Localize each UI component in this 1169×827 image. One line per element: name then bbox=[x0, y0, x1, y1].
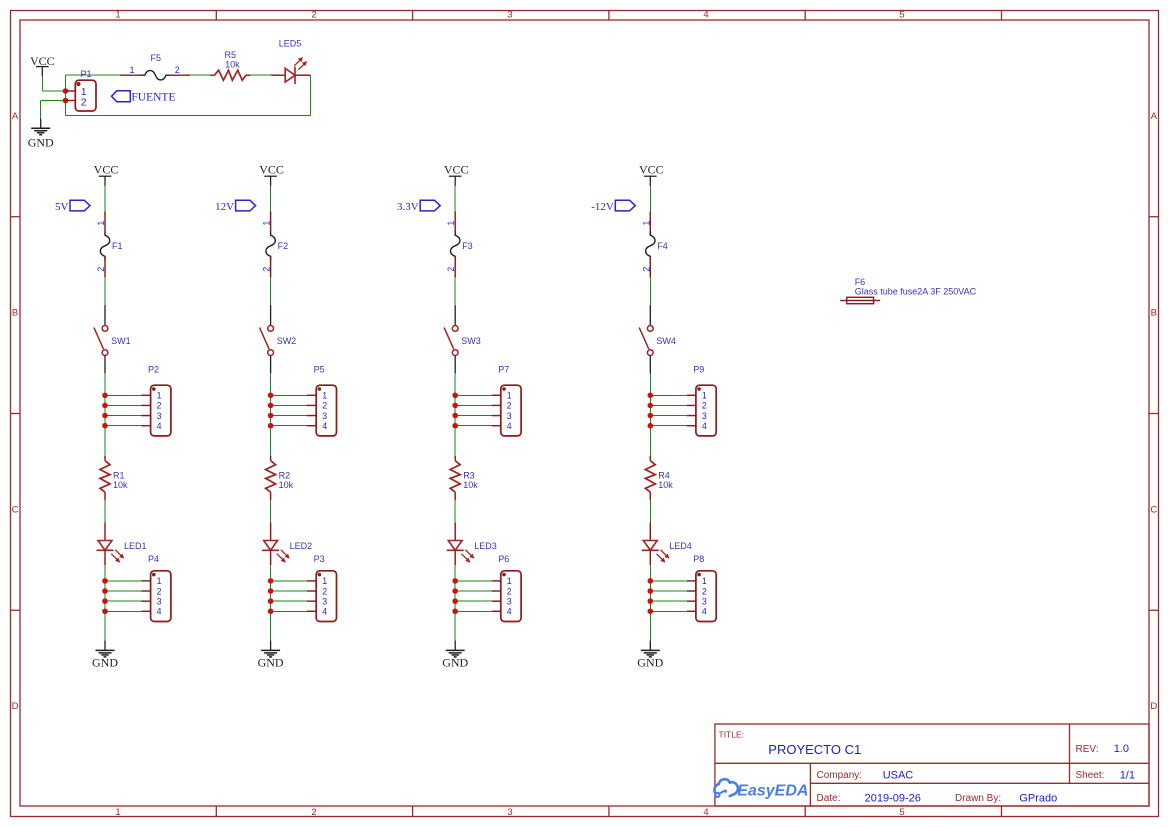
power flag VCC (column 12V) bbox=[259, 162, 284, 186]
wire VCC to fuse bbox=[649, 186, 651, 212]
junction P5 pin 1 bbox=[268, 393, 274, 399]
title block bbox=[715, 724, 1149, 806]
svg-text:5: 5 bbox=[899, 807, 904, 818]
ground GND (source circuit) bbox=[28, 119, 54, 150]
svg-text:2: 2 bbox=[311, 10, 316, 21]
connector P4 (4-pin header) bbox=[141, 554, 171, 621]
wire to P8 pin 2 bbox=[650, 590, 686, 592]
svg-text:4: 4 bbox=[507, 607, 512, 617]
svg-text:VCC: VCC bbox=[444, 162, 469, 176]
switch SW4 bbox=[639, 305, 676, 373]
P3 pin 4 bbox=[307, 610, 316, 612]
junction P8 pin 3 bbox=[648, 598, 654, 604]
wire LED to output header bbox=[270, 565, 272, 641]
svg-text:5V: 5V bbox=[55, 201, 69, 213]
LED LED4 bbox=[642, 523, 692, 566]
svg-text:D: D bbox=[1150, 701, 1157, 712]
wire switch to resistor bbox=[454, 373, 456, 456]
wire to P8 pin 1 bbox=[650, 580, 686, 582]
wire resistor to LED bbox=[270, 500, 272, 523]
wire resistor to LED bbox=[104, 500, 106, 523]
connector P6 (4-pin header) bbox=[492, 554, 521, 621]
power flag VCC (column -12V) bbox=[639, 162, 664, 186]
svg-text:B: B bbox=[1151, 308, 1157, 319]
P7 pin 3 bbox=[492, 415, 501, 417]
wire switch to resistor bbox=[104, 373, 106, 456]
svg-text:2: 2 bbox=[157, 401, 162, 411]
junction P2 pin 4 bbox=[102, 423, 108, 429]
P6 pin 1 bbox=[492, 580, 501, 582]
svg-text:GND: GND bbox=[28, 135, 54, 149]
svg-text:GPrado: GPrado bbox=[1019, 792, 1057, 804]
wire VCC to P1 pin 1 bbox=[42, 76, 65, 91]
resistor R2 10k bbox=[266, 456, 294, 500]
junction P9 pin 3 bbox=[648, 413, 654, 419]
svg-text:P8: P8 bbox=[693, 554, 704, 564]
svg-text:3: 3 bbox=[702, 411, 707, 421]
svg-text:F4: F4 bbox=[657, 241, 668, 251]
svg-text:4: 4 bbox=[702, 421, 707, 431]
svg-text:2: 2 bbox=[322, 401, 327, 411]
junction P9 pin 1 bbox=[648, 393, 654, 399]
wire to P3 pin 1 bbox=[271, 580, 307, 582]
svg-text:PROYECTO C1: PROYECTO C1 bbox=[768, 742, 861, 757]
wire to P6 pin 2 bbox=[455, 590, 491, 592]
svg-text:LED2: LED2 bbox=[290, 541, 313, 551]
svg-text:10k: 10k bbox=[658, 480, 673, 490]
wire to P2 pin 3 bbox=[105, 415, 141, 417]
junction P6 pin 1 bbox=[452, 578, 458, 584]
P6 pin 2 bbox=[492, 590, 501, 592]
wire to P3 pin 3 bbox=[271, 600, 307, 602]
junction P4 pin 3 bbox=[102, 598, 108, 604]
junction P7 pin 1 bbox=[452, 393, 458, 399]
svg-text:4: 4 bbox=[157, 421, 162, 431]
wire to P4 pin 4 bbox=[105, 610, 141, 612]
svg-text:1: 1 bbox=[702, 391, 707, 401]
svg-text:R4: R4 bbox=[658, 471, 670, 481]
svg-text:4: 4 bbox=[702, 607, 707, 617]
power flag VCC (column 5V) bbox=[94, 162, 119, 186]
connector P5 (4-pin header) bbox=[307, 365, 337, 436]
junction P3 pin 1 bbox=[268, 578, 274, 584]
svg-text:3: 3 bbox=[507, 807, 512, 818]
wire P1 pin 2 to GND bbox=[41, 101, 66, 120]
wire to P7 pin 1 bbox=[455, 394, 491, 396]
P4 pin 4 bbox=[141, 610, 150, 612]
wire to P9 pin 1 bbox=[650, 394, 686, 396]
svg-text:1: 1 bbox=[115, 10, 120, 21]
svg-text:A: A bbox=[1151, 111, 1158, 122]
resistor R4 10k bbox=[645, 456, 673, 500]
junction P1 pin 1 bbox=[63, 88, 69, 94]
svg-text:3: 3 bbox=[322, 411, 327, 421]
svg-text:4: 4 bbox=[322, 607, 327, 617]
connector P8 (4-pin header) bbox=[687, 554, 717, 621]
svg-text:4: 4 bbox=[703, 807, 708, 818]
wire fuse to switch bbox=[104, 277, 106, 306]
resistor R1 10k bbox=[100, 456, 128, 500]
svg-text:F2: F2 bbox=[278, 241, 289, 251]
wire fuse to switch bbox=[649, 277, 651, 306]
svg-text:F5: F5 bbox=[151, 53, 162, 63]
svg-text:GND: GND bbox=[258, 656, 284, 670]
junction P7 pin 4 bbox=[452, 423, 458, 429]
connector P7 (4-pin header) bbox=[492, 365, 521, 436]
junction P2 pin 3 bbox=[102, 413, 108, 419]
svg-text:10k: 10k bbox=[225, 60, 240, 70]
svg-text:R5: R5 bbox=[225, 50, 237, 60]
wire to P4 pin 3 bbox=[105, 600, 141, 602]
P9 pin 1 bbox=[687, 394, 696, 396]
svg-text:USAC: USAC bbox=[883, 769, 914, 781]
wire resistor to LED bbox=[454, 500, 456, 523]
P3 pin 2 bbox=[307, 590, 316, 592]
svg-text:3: 3 bbox=[507, 10, 512, 21]
svg-text:5: 5 bbox=[899, 10, 904, 21]
P2 pin 1 bbox=[141, 394, 150, 396]
junction P5 pin 4 bbox=[268, 423, 274, 429]
wire to P3 pin 2 bbox=[271, 590, 307, 592]
P5 pin 4 bbox=[307, 425, 316, 427]
fuse F4 bbox=[641, 211, 668, 277]
svg-text:Company:: Company: bbox=[817, 770, 863, 781]
wire to P5 pin 1 bbox=[271, 394, 307, 396]
fuse F5 bbox=[120, 53, 190, 80]
svg-text:GND: GND bbox=[442, 656, 468, 670]
P6 pin 4 bbox=[492, 610, 501, 612]
svg-text:LED3: LED3 bbox=[474, 541, 497, 551]
svg-text:D: D bbox=[12, 701, 19, 712]
junction P2 pin 1 bbox=[102, 393, 108, 399]
svg-text:GND: GND bbox=[637, 656, 663, 670]
ground GND (column 12V) bbox=[258, 641, 284, 670]
net flag FUENTE bbox=[112, 91, 176, 104]
fuse F1 bbox=[96, 211, 123, 277]
P3 pin 3 bbox=[307, 600, 316, 602]
wire LED to output header bbox=[104, 565, 106, 641]
wire LED to output header bbox=[454, 565, 456, 641]
svg-text:1: 1 bbox=[157, 576, 162, 586]
junction P8 pin 2 bbox=[648, 588, 654, 594]
svg-text:Date:: Date: bbox=[817, 793, 841, 804]
svg-text:2: 2 bbox=[175, 65, 180, 75]
junction P9 pin 2 bbox=[648, 403, 654, 409]
svg-text:3: 3 bbox=[507, 596, 512, 606]
net flag 3.3V bbox=[397, 200, 440, 213]
junction P5 pin 2 bbox=[268, 403, 274, 409]
wire to P5 pin 3 bbox=[271, 415, 307, 417]
svg-text:Drawn By:: Drawn By: bbox=[955, 793, 1001, 804]
svg-text:1: 1 bbox=[322, 391, 327, 401]
connector P3 (4-pin header) bbox=[307, 554, 337, 621]
svg-text:10k: 10k bbox=[279, 480, 294, 490]
svg-text:3: 3 bbox=[157, 596, 162, 606]
LED LED5 bbox=[271, 39, 310, 85]
svg-text:B: B bbox=[12, 308, 18, 319]
svg-text:2: 2 bbox=[157, 586, 162, 596]
LED LED3 bbox=[447, 523, 497, 566]
junction P5 pin 3 bbox=[268, 413, 274, 419]
svg-text:P7: P7 bbox=[498, 365, 509, 375]
junction P4 pin 4 bbox=[102, 608, 108, 614]
P7 pin 1 bbox=[492, 394, 501, 396]
svg-text:2: 2 bbox=[322, 586, 327, 596]
svg-text:1: 1 bbox=[115, 807, 120, 818]
junction P4 pin 2 bbox=[102, 588, 108, 594]
wire to P7 pin 4 bbox=[455, 425, 491, 427]
wire to P4 pin 1 bbox=[105, 580, 141, 582]
P7 pin 4 bbox=[492, 425, 501, 427]
power flag VCC (source circuit) bbox=[30, 54, 55, 77]
svg-text:4: 4 bbox=[703, 10, 708, 21]
svg-text:P4: P4 bbox=[148, 554, 159, 564]
svg-text:REV:: REV: bbox=[1076, 744, 1099, 755]
P5 pin 3 bbox=[307, 415, 316, 417]
junction P6 pin 4 bbox=[452, 608, 458, 614]
P9 pin 4 bbox=[687, 425, 696, 427]
P9 pin 3 bbox=[687, 415, 696, 417]
junction P9 pin 4 bbox=[648, 423, 654, 429]
wire to P8 pin 4 bbox=[650, 610, 686, 612]
wire to P6 pin 1 bbox=[455, 580, 491, 582]
wire to P5 pin 4 bbox=[271, 425, 307, 427]
wire to P7 pin 3 bbox=[455, 415, 491, 417]
junction P7 pin 2 bbox=[452, 403, 458, 409]
svg-text:2: 2 bbox=[507, 586, 512, 596]
svg-text:SW4: SW4 bbox=[656, 336, 676, 346]
junction P8 pin 4 bbox=[648, 608, 654, 614]
svg-text:1: 1 bbox=[157, 391, 162, 401]
P4 pin 2 bbox=[141, 590, 150, 592]
wire to P6 pin 3 bbox=[455, 600, 491, 602]
connector P9 (4-pin header) bbox=[687, 365, 717, 436]
wire VCC to fuse bbox=[104, 186, 106, 212]
wire VCC to fuse bbox=[454, 186, 456, 212]
P7 pin 2 bbox=[492, 404, 501, 406]
P4 pin 1 bbox=[141, 580, 150, 582]
P2 pin 3 bbox=[141, 415, 150, 417]
svg-text:R3: R3 bbox=[463, 471, 475, 481]
svg-text:2: 2 bbox=[311, 807, 316, 818]
svg-text:2: 2 bbox=[507, 401, 512, 411]
wire to P7 pin 2 bbox=[455, 404, 491, 406]
svg-text:1: 1 bbox=[507, 391, 512, 401]
svg-text:TITLE:: TITLE: bbox=[719, 730, 745, 740]
svg-text:R1: R1 bbox=[113, 471, 125, 481]
LED LED2 bbox=[262, 523, 312, 566]
junction P6 pin 3 bbox=[452, 598, 458, 604]
svg-text:SW1: SW1 bbox=[111, 336, 131, 346]
svg-text:P3: P3 bbox=[314, 554, 325, 564]
switch SW3 bbox=[444, 305, 481, 373]
switch SW1 bbox=[94, 305, 131, 373]
net flag 5V bbox=[55, 200, 90, 213]
wire switch to resistor bbox=[649, 373, 651, 456]
svg-text:1/1: 1/1 bbox=[1120, 769, 1135, 781]
svg-text:12V: 12V bbox=[215, 201, 234, 213]
svg-text:3: 3 bbox=[507, 411, 512, 421]
wire fuse to switch bbox=[454, 277, 456, 306]
svg-text:Glass tube fuse2A 3F 250VAC: Glass tube fuse2A 3F 250VAC bbox=[855, 286, 977, 296]
wire to P4 pin 2 bbox=[105, 590, 141, 592]
wire to P9 pin 3 bbox=[650, 415, 686, 417]
ground GND (column 3.3V) bbox=[442, 641, 468, 670]
svg-text:VCC: VCC bbox=[94, 162, 119, 176]
svg-text:4: 4 bbox=[507, 421, 512, 431]
EasyEDA logo bbox=[714, 779, 808, 799]
fuse F6 (glass tube) bbox=[840, 277, 976, 304]
LED LED1 bbox=[97, 523, 147, 566]
svg-text:P1: P1 bbox=[81, 69, 92, 79]
junction P7 pin 3 bbox=[452, 413, 458, 419]
P2 pin 2 bbox=[141, 404, 150, 406]
wire to P9 pin 4 bbox=[650, 425, 686, 427]
svg-text:Sheet:: Sheet: bbox=[1076, 770, 1105, 781]
svg-text:1.0: 1.0 bbox=[1114, 743, 1129, 755]
net flag 12V bbox=[215, 200, 255, 213]
svg-text:2019-09-26: 2019-09-26 bbox=[865, 792, 921, 804]
resistor R5 10k bbox=[210, 50, 250, 80]
wire resistor to LED bbox=[649, 500, 651, 523]
fuse F3 bbox=[446, 211, 473, 277]
wire to P2 pin 2 bbox=[105, 404, 141, 406]
P5 pin 2 bbox=[307, 404, 316, 406]
wire to P9 pin 2 bbox=[650, 404, 686, 406]
wire LED to output header bbox=[649, 565, 651, 641]
P6 pin 3 bbox=[492, 600, 501, 602]
svg-text:10k: 10k bbox=[113, 480, 128, 490]
junction P8 pin 1 bbox=[648, 578, 654, 584]
connector P1 (2-pin header) bbox=[66, 69, 97, 111]
ground GND (column -12V) bbox=[637, 641, 663, 670]
svg-text:F1: F1 bbox=[112, 241, 123, 251]
junction P3 pin 2 bbox=[268, 588, 274, 594]
svg-text:VCC: VCC bbox=[639, 162, 664, 176]
junction P2 pin 2 bbox=[102, 403, 108, 409]
wire to P5 pin 2 bbox=[271, 404, 307, 406]
svg-text:1: 1 bbox=[322, 576, 327, 586]
connector P2 (4-pin header) bbox=[141, 365, 171, 436]
svg-text:GND: GND bbox=[92, 656, 118, 670]
fuse F2 bbox=[262, 211, 289, 277]
svg-text:1: 1 bbox=[130, 65, 135, 75]
P4 pin 3 bbox=[141, 600, 150, 602]
svg-text:LED4: LED4 bbox=[669, 541, 692, 551]
wire to P8 pin 3 bbox=[650, 600, 686, 602]
svg-text:2: 2 bbox=[81, 96, 87, 108]
svg-text:P9: P9 bbox=[693, 365, 704, 375]
svg-text:3.3V: 3.3V bbox=[397, 201, 419, 213]
svg-text:4: 4 bbox=[157, 607, 162, 617]
net flag -12V bbox=[591, 200, 635, 213]
wire to P3 pin 4 bbox=[271, 610, 307, 612]
svg-text:R2: R2 bbox=[279, 471, 291, 481]
wire to P2 pin 1 bbox=[105, 394, 141, 396]
svg-text:2: 2 bbox=[702, 586, 707, 596]
wire fuse to switch bbox=[270, 277, 272, 306]
junction P1 pin 2 bbox=[63, 98, 69, 104]
P2 pin 4 bbox=[141, 425, 150, 427]
wire to P2 pin 4 bbox=[105, 425, 141, 427]
wire loop net (P1 / F5 / LED5) bbox=[66, 75, 311, 116]
svg-text:1: 1 bbox=[507, 576, 512, 586]
wire to P6 pin 4 bbox=[455, 610, 491, 612]
resistor R3 10k bbox=[450, 456, 478, 500]
P8 pin 2 bbox=[687, 590, 696, 592]
svg-text:-12V: -12V bbox=[591, 201, 614, 213]
svg-text:FUENTE: FUENTE bbox=[131, 92, 175, 104]
P8 pin 1 bbox=[687, 580, 696, 582]
svg-text:SW3: SW3 bbox=[461, 336, 481, 346]
power flag VCC (column 3.3V) bbox=[444, 162, 469, 186]
wire VCC to fuse bbox=[270, 186, 272, 212]
svg-text:C: C bbox=[1150, 504, 1157, 515]
svg-text:LED5: LED5 bbox=[279, 39, 302, 49]
P9 pin 2 bbox=[687, 404, 696, 406]
svg-text:2: 2 bbox=[702, 401, 707, 411]
svg-text:VCC: VCC bbox=[30, 54, 55, 68]
junction P6 pin 2 bbox=[452, 588, 458, 594]
wire switch to resistor bbox=[270, 373, 272, 456]
junction P3 pin 3 bbox=[268, 598, 274, 604]
svg-text:P5: P5 bbox=[314, 365, 325, 375]
switch SW2 bbox=[260, 305, 297, 373]
svg-text:1: 1 bbox=[702, 576, 707, 586]
svg-text:VCC: VCC bbox=[259, 162, 284, 176]
junction P4 pin 1 bbox=[102, 578, 108, 584]
P5 pin 1 bbox=[307, 394, 316, 396]
svg-text:SW2: SW2 bbox=[277, 336, 297, 346]
P8 pin 4 bbox=[687, 610, 696, 612]
P3 pin 1 bbox=[307, 580, 316, 582]
svg-text:A: A bbox=[12, 111, 19, 122]
svg-text:F3: F3 bbox=[462, 241, 473, 251]
P8 pin 3 bbox=[687, 600, 696, 602]
junction P3 pin 4 bbox=[268, 608, 274, 614]
ground GND (column 5V) bbox=[92, 641, 118, 670]
svg-text:4: 4 bbox=[322, 421, 327, 431]
svg-text:3: 3 bbox=[322, 596, 327, 606]
svg-text:3: 3 bbox=[157, 411, 162, 421]
svg-text:P2: P2 bbox=[148, 365, 159, 375]
svg-text:C: C bbox=[12, 504, 19, 515]
svg-text:10k: 10k bbox=[463, 480, 478, 490]
svg-text:3: 3 bbox=[702, 596, 707, 606]
svg-text:EasyEDA: EasyEDA bbox=[737, 782, 808, 799]
svg-text:P6: P6 bbox=[498, 554, 509, 564]
svg-text:LED1: LED1 bbox=[124, 541, 147, 551]
